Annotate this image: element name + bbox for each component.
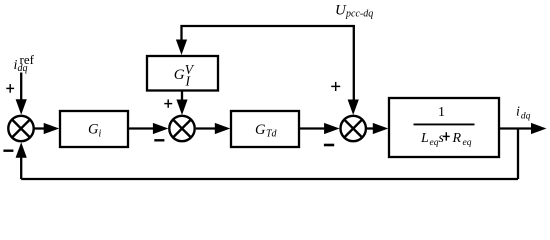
sign plus at S3 top input xyxy=(331,82,340,91)
svg-text:R: R xyxy=(452,131,462,146)
svg-text:1: 1 xyxy=(438,105,445,120)
arrowhead into GV block top xyxy=(176,40,187,56)
wire feedback bottom run xyxy=(21,178,518,180)
wire plant block to output idq xyxy=(499,127,535,129)
svg-text:i: i xyxy=(516,105,520,120)
svg-text:pcc-dq: pcc-dq xyxy=(345,9,373,20)
arrowhead into Gi xyxy=(44,123,60,134)
svg-text:G: G xyxy=(174,67,185,83)
svg-text:s: s xyxy=(439,131,445,146)
arrowhead into S1 bottom xyxy=(16,142,27,158)
wire GV block down into summing junction S2 xyxy=(181,91,183,105)
arrowhead into S2 left xyxy=(153,123,169,134)
block GTd xyxy=(231,111,299,147)
svg-text:Td: Td xyxy=(266,129,278,140)
block GV_I (voltage feed-forward) xyxy=(147,56,218,91)
wire Gi to summing junction S2 xyxy=(128,127,157,129)
wire top horizontal from Upcc node to GV block drop xyxy=(182,26,354,103)
wire input idq-ref down into summing junction S1 xyxy=(20,73,22,104)
block Gi xyxy=(60,111,128,147)
label idq output xyxy=(516,105,531,122)
wire S2 to block GTd xyxy=(196,127,219,129)
svg-text:dq: dq xyxy=(18,63,28,74)
svg-text:eq: eq xyxy=(430,138,439,148)
arrowhead into S1 top xyxy=(16,99,27,115)
sign minus at S2 left input xyxy=(154,139,164,141)
svg-text:dq: dq xyxy=(521,111,531,121)
arrowhead into S3 top xyxy=(348,100,359,116)
wire S1 to block Gi xyxy=(34,127,48,129)
summing junction S3 xyxy=(341,116,366,141)
sign minus at S1 feedback xyxy=(3,149,13,151)
wire feedback branch down from output node xyxy=(517,129,519,180)
sign plus at S2 top input xyxy=(164,99,172,107)
svg-text:eq: eq xyxy=(463,138,472,148)
svg-text:L: L xyxy=(420,131,429,146)
svg-text:G: G xyxy=(88,122,99,138)
block plant 1/(Leq s + Req) xyxy=(389,98,499,157)
summing junction S2 xyxy=(169,116,194,141)
arrowhead output idq xyxy=(531,123,547,134)
svg-text:i: i xyxy=(99,129,102,140)
sign plus at S1 input xyxy=(6,84,14,93)
svg-text:G: G xyxy=(255,122,266,138)
label Upcc-dq xyxy=(335,3,373,20)
arrowhead into GTd xyxy=(215,123,231,134)
arrowhead into S3 left xyxy=(324,123,340,134)
label idq-ref input xyxy=(14,52,35,74)
summing junction S1 xyxy=(8,116,33,141)
wire S3 to plant block xyxy=(367,127,379,129)
wire feedback up into S1 xyxy=(20,154,22,179)
arrowhead into plant block xyxy=(373,123,389,134)
arrowhead into S2 top xyxy=(176,100,187,116)
wire GTd to summing junction S3 xyxy=(299,127,328,129)
sign minus at S3 left input xyxy=(324,144,334,147)
